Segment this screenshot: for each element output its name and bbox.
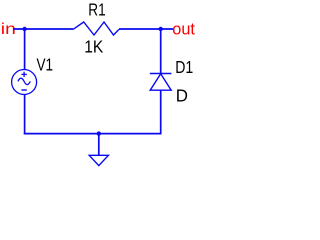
junction at ground stub (97, 131, 101, 135)
wire ground stub (98, 134, 100, 156)
voltage source V1 (12, 70, 37, 95)
wire top-right (resistor to out) (119, 28, 173, 30)
ground (89, 155, 108, 165)
svg-text:V1: V1 (37, 55, 54, 75)
junction at node out rail (159, 27, 163, 31)
svg-text:D1: D1 (175, 57, 193, 77)
svg-text:R1: R1 (88, 0, 105, 20)
svg-text:D: D (176, 86, 188, 106)
junction at node in rail (22, 27, 26, 31)
wire left vertical lower (V1 bottom to bottom rail) (24, 94, 26, 134)
wire right vertical upper (junction to diode cathode) (160, 29, 162, 74)
wire bottom rail (24, 133, 162, 135)
wire top-left (in to resistor) (13, 28, 73, 30)
wire right vertical lower (diode anode to bottom rail) (160, 90, 162, 134)
svg-text:1K: 1K (84, 37, 103, 57)
resistor R1 (73, 22, 119, 35)
svg-text:out: out (172, 21, 195, 39)
wire left vertical upper (junction to V1 top) (24, 29, 26, 70)
diode D1 (150, 74, 172, 91)
